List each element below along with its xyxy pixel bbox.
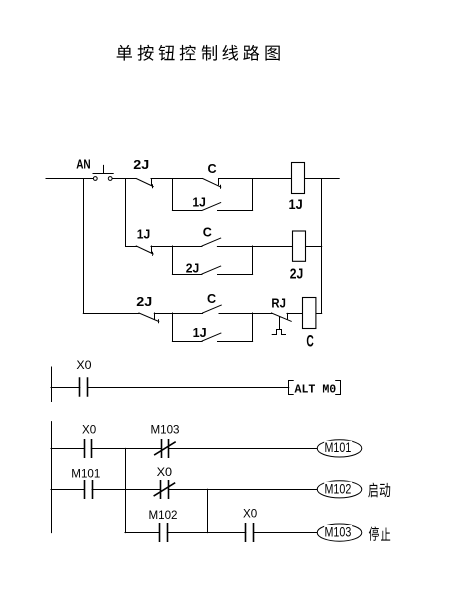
svg-text:X0: X0 [82,424,96,437]
svg-text:AN: AN [76,158,91,172]
svg-text:C: C [208,162,217,176]
svg-text:2J: 2J [136,295,152,309]
svg-text:C: C [203,226,212,240]
svg-text:X0: X0 [243,508,257,521]
svg-text:2J: 2J [133,158,149,172]
svg-text:ALT M0: ALT M0 [295,383,337,396]
svg-text:M101: M101 [71,468,100,481]
svg-text:1J: 1J [193,326,207,340]
svg-text:RJ: RJ [271,297,286,311]
svg-text:M102: M102 [149,509,178,522]
svg-text:M101: M101 [325,440,352,455]
svg-text:M102: M102 [325,481,352,496]
svg-text:2J: 2J [290,265,304,282]
svg-text:M103: M103 [151,424,180,437]
svg-text:C: C [207,292,216,306]
svg-text:1J: 1J [192,195,206,209]
svg-text:X0: X0 [157,466,173,479]
svg-text:X0: X0 [76,359,91,372]
svg-text:C: C [306,333,314,351]
svg-text:1J: 1J [137,228,151,242]
svg-text:2J: 2J [186,262,200,276]
svg-text:1J: 1J [289,196,303,212]
svg-text:M103: M103 [325,525,352,540]
